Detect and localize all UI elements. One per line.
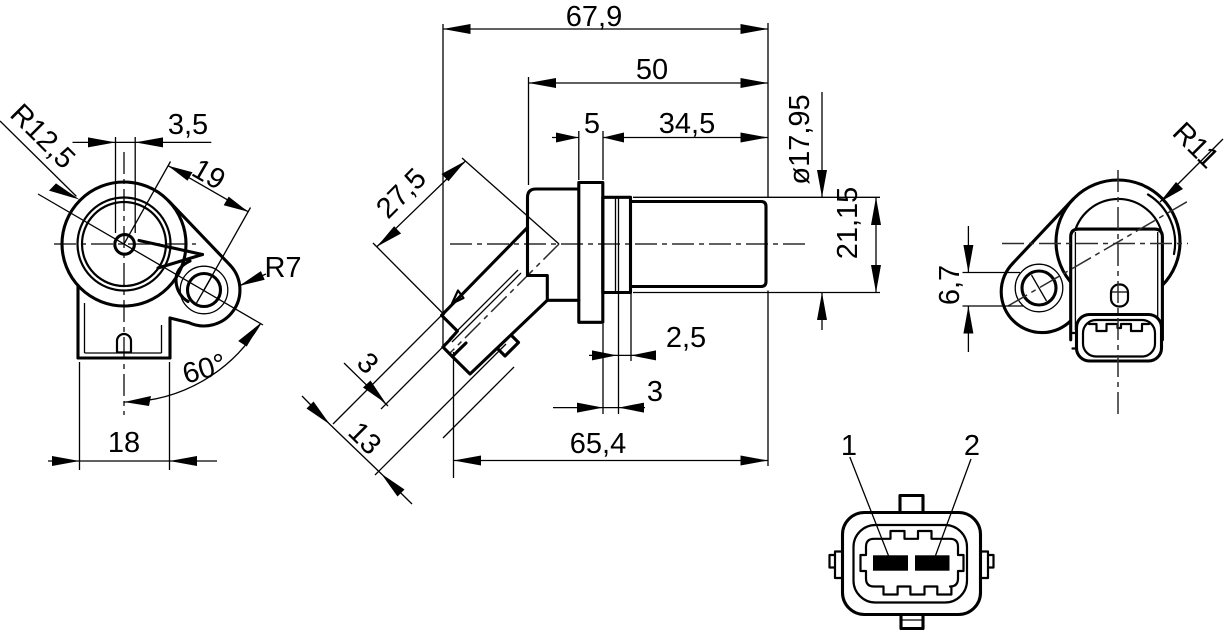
ext line x768 top [767, 23, 769, 197]
dim 19 line [168, 166, 248, 212]
body inner floor [85, 352, 162, 354]
ext line x528.5 [528, 77, 530, 185]
outer tangent [1013, 199, 1073, 263]
body block outline [528, 189, 579, 300]
dim 6,7 arrows [963, 245, 973, 334]
dim R12,5 leader [0, 121, 76, 196]
neck upper edge D1 [442, 228, 528, 316]
svg-text:50: 50 [636, 54, 668, 86]
centerline vertical [1117, 170, 1119, 415]
svg-text:6,7: 6,7 [934, 265, 966, 305]
ext diag Ed [443, 367, 514, 438]
ear hole r17 [1022, 271, 1056, 305]
svg-text:2,5: 2,5 [666, 322, 706, 354]
pin 2 leader [935, 459, 971, 558]
svg-text:18: 18 [108, 427, 140, 459]
dim 5 line left [552, 137, 579, 139]
svg-text:34,5: 34,5 [659, 108, 715, 140]
dim 67,9 arrows [443, 24, 768, 34]
notch upper edge [139, 241, 203, 255]
dim 18 line [48, 460, 217, 462]
ear outer arc [1001, 263, 1071, 332]
axis line through holes 30deg [38, 194, 263, 325]
ext line x455.5 bottom [453, 352, 455, 478]
dim 3b line [553, 407, 645, 409]
svg-text:21,15: 21,15 [832, 187, 864, 260]
dim 13 line [302, 396, 412, 504]
dim 50 arrows [529, 78, 769, 88]
dim 34,5 arrow right [741, 133, 769, 143]
dim R12,5 arrow [49, 183, 80, 199]
dim 2,5 line [589, 354, 656, 356]
ext diag Ea [333, 315, 442, 424]
ear crosshair dash right [1032, 275, 1047, 301]
ring circle r46.5 [78, 198, 171, 291]
centerline horizontal [1002, 243, 1188, 245]
dim 19 ext from C2 [204, 208, 251, 291]
dim 27,5 ext center [462, 158, 559, 244]
dim 2,5 arrows [592, 350, 656, 360]
housing inner walls [1075, 232, 1157, 330]
ear ring r24 [1015, 264, 1063, 312]
dim 19 arrows [168, 166, 248, 212]
flange [579, 183, 603, 323]
ext line x768 bottom [767, 291, 769, 467]
dim 19 ext from C1 [124, 162, 171, 245]
dim 3,5 ext lines [116, 137, 136, 233]
svg-text:3: 3 [647, 376, 663, 408]
centerline horizontal [54, 243, 196, 245]
dim 60 arc [124, 323, 261, 402]
shroud mouth face [442, 315, 466, 356]
dim o17,95 ext lines [633, 197, 880, 292]
ext line x443 [442, 24, 444, 345]
dim R7 leader [239, 274, 266, 286]
dim 3,5 line [73, 141, 212, 143]
dim 27,5 ext corner [373, 243, 445, 315]
inner arc r45 [1073, 199, 1161, 240]
right tab [980, 552, 994, 579]
dim 18 arrows [52, 456, 197, 466]
dim R11 arrow [1160, 182, 1183, 202]
outline bump to body right edge [170, 318, 189, 323]
dim 65,4 line [454, 460, 769, 462]
castellated profile [861, 531, 964, 595]
bottom tab [901, 615, 923, 629]
inner arc r56.5 [1148, 195, 1175, 255]
main cylinder [631, 202, 767, 287]
square housing [1071, 229, 1163, 340]
inner shell [854, 525, 968, 603]
shroud lower edge [452, 300, 547, 374]
bottom tab line [901, 619, 923, 621]
center hole r9.8 [115, 235, 135, 255]
dim 65,4 arrows [454, 456, 769, 466]
svg-text:3,5: 3,5 [168, 109, 208, 141]
body inner wall right [161, 325, 163, 353]
top tab [900, 496, 923, 513]
dim 27,5 line [377, 161, 466, 247]
dim 18 ext lines [80, 362, 170, 470]
shroud seam thin lines [449, 270, 521, 342]
connector axis dash-dot [450, 244, 559, 353]
dim 3a line [344, 363, 388, 406]
side tab left [1073, 333, 1082, 349]
dim R11 leader [1160, 139, 1223, 202]
clip slot [1111, 285, 1128, 307]
dim 3b arrows [577, 403, 644, 413]
ext diag Ec [375, 344, 506, 475]
body left edge [76, 286, 79, 358]
ear ring r24 [180, 266, 228, 314]
left tab [830, 552, 844, 579]
notch lower edge [158, 255, 203, 269]
notch curl [176, 261, 190, 302]
pin 1 [873, 555, 908, 570]
axis dash-dot [1008, 200, 1190, 306]
ext line x578.8 top [578, 131, 580, 180]
svg-text:67,9: 67,9 [566, 1, 622, 33]
dim 34,5 line [603, 137, 768, 139]
plug castellation [1089, 324, 1149, 331]
dim 50 line [529, 82, 769, 84]
outer shell [843, 513, 981, 615]
dim 21,15 arrows [871, 197, 881, 292]
head outer big circle [62, 182, 186, 306]
svg-text:5: 5 [584, 108, 600, 140]
ext line x603 bottom [602, 324, 604, 414]
svg-text:1: 1 [841, 430, 857, 462]
dim o17,95 dimline [821, 92, 823, 330]
dim 3a arrow [363, 381, 386, 404]
svg-text:ø17,95: ø17,95 [784, 94, 816, 184]
dim 6,7 ext lines [963, 273, 1024, 307]
pin 2 [915, 555, 950, 570]
cylinder left edge [629, 202, 631, 287]
dim o17,95 arrows [817, 170, 827, 320]
dim 27,5 arrows [377, 161, 466, 247]
clip slot bottom [117, 351, 131, 353]
dim 67,9 line [443, 28, 768, 30]
side tab right [1152, 333, 1161, 349]
ring circle r42 [82, 202, 166, 286]
ear crosshair dash [197, 277, 212, 303]
body inner wall left [84, 303, 86, 353]
head outer circle [1056, 180, 1180, 304]
svg-text:65,4: 65,4 [570, 428, 626, 460]
dim 60 arrows [124, 323, 261, 406]
mouth triangle tab [452, 291, 464, 304]
svg-text:2: 2 [964, 430, 980, 462]
dim R7 arrow [239, 271, 265, 286]
ext line x603 top [602, 131, 604, 180]
outer tangent to ear [169, 201, 230, 265]
ext diag Eb [381, 341, 449, 409]
dim 21,15 dimline [875, 197, 877, 292]
clip slot [117, 334, 131, 352]
centerline horizontal [450, 243, 806, 245]
ext line x618.5 bottom [618, 294, 620, 414]
plug outer rrect [1077, 315, 1162, 362]
svg-text:R7: R7 [264, 252, 301, 284]
centerline vertical [123, 152, 125, 415]
dim 3,5 arrows [88, 137, 163, 147]
dim 5 arrows [556, 133, 624, 143]
sleeve [603, 197, 631, 292]
ear hole r16.5 [188, 274, 221, 307]
clip slot chord [1111, 291, 1128, 293]
plug inner rrect [1083, 320, 1155, 357]
body right edge [168, 318, 171, 358]
ear bump outer arc r36 [189, 265, 240, 326]
sleeve inner line [616, 197, 619, 292]
ext line x631 bottom [630, 289, 632, 361]
dim 6,7 dimline [967, 226, 969, 352]
dim 13 arrows [307, 402, 405, 497]
body bottom [78, 356, 170, 359]
shroud rib bump [498, 336, 519, 357]
pin 1 leader [850, 457, 889, 557]
